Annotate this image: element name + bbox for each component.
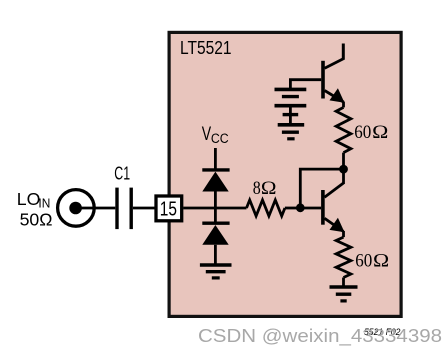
IC body LT5521 shaded box [169,32,401,316]
node A junction dot [296,203,305,212]
wire Q1 base to bias battery [290,80,321,90]
ground under battery [278,123,305,127]
transistor Q1 (top) [321,61,325,99]
svg-text:LT5521: LT5521 [180,38,232,59]
transistor Q2 (diode-connected) [321,190,325,225]
svg-text:60: 60 [355,250,372,271]
pin 15 box [156,196,182,221]
svg-text:60: 60 [354,122,371,143]
wire C1 to pin 15 [133,207,156,210]
diode D2 (to ground) [214,208,217,223]
svg-text:50Ω: 50Ω [20,209,53,229]
ground under D2 [200,263,232,267]
node B junction dot [339,165,348,174]
svg-text:CC: CC [211,131,229,146]
emitter Q1 with arrow [325,91,344,103]
svg-text:Ω: Ω [372,122,388,143]
wire pin 15 to node, main horizontal [183,207,246,210]
wire LO circle to C1 [76,207,116,210]
svg-text:15: 15 [160,199,177,221]
wire VCC to D1 [214,148,217,170]
resistor 60Ω lower [342,231,345,237]
svg-text:CSDN @weixin_43334398: CSDN @weixin_43334398 [198,326,442,347]
svg-text:C1: C1 [114,163,130,183]
svg-text:IN: IN [38,196,50,210]
wire resistor to node B [342,153,345,170]
svg-text:Ω: Ω [373,250,389,271]
battery bias cell 1 [275,88,307,92]
ground lower right [330,285,358,289]
resistor R 8Ω [247,200,285,216]
wire resistor to node A [285,207,300,210]
wire resistor to ground [342,278,345,288]
collector Q1 up [325,59,344,68]
battery bias cell 2 [275,104,307,108]
wire node A to Q2 base [300,207,321,210]
capacitor C1 plates [115,188,118,230]
svg-text:8: 8 [253,178,261,199]
wire Q1 emitter to resistor [342,102,345,108]
wire node A up and right to node B [300,169,343,208]
node LO_IN connector circle [58,190,95,227]
resistor 60Ω upper [336,107,351,152]
svg-text:LO: LO [17,189,41,209]
svg-text:Ω: Ω [261,178,277,199]
svg-text:V: V [202,124,212,145]
wire battery to ground [289,106,292,125]
diode D1 (to VCC) [202,168,229,171]
